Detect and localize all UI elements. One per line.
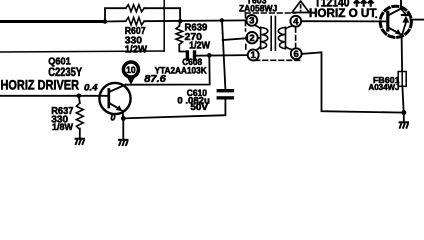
svg-text:0.4: 0.4 bbox=[84, 82, 98, 92]
svg-text:HORIZ DRIVER: HORIZ DRIVER bbox=[1, 76, 80, 92]
svg-text:1/8W: 1/8W bbox=[52, 122, 73, 133]
svg-text:0: 0 bbox=[111, 113, 116, 123]
svg-text:A034WJ: A034WJ bbox=[369, 82, 400, 92]
svg-text:6: 6 bbox=[294, 49, 299, 60]
svg-text:HORIZ O UT: HORIZ O UT bbox=[309, 6, 377, 20]
svg-text:Q601: Q601 bbox=[48, 55, 71, 67]
svg-text:1/2W: 1/2W bbox=[125, 44, 147, 56]
svg-text:1: 1 bbox=[251, 50, 257, 61]
svg-text:3: 3 bbox=[249, 16, 254, 27]
svg-text:4: 4 bbox=[293, 16, 299, 27]
svg-text:ZA058WJ: ZA058WJ bbox=[239, 3, 277, 13]
svg-text:50V: 50V bbox=[190, 102, 208, 112]
svg-text:2: 2 bbox=[249, 33, 254, 44]
svg-text:1/2W: 1/2W bbox=[189, 40, 210, 52]
svg-text:87.6: 87.6 bbox=[144, 74, 166, 85]
svg-text:10: 10 bbox=[126, 65, 136, 76]
